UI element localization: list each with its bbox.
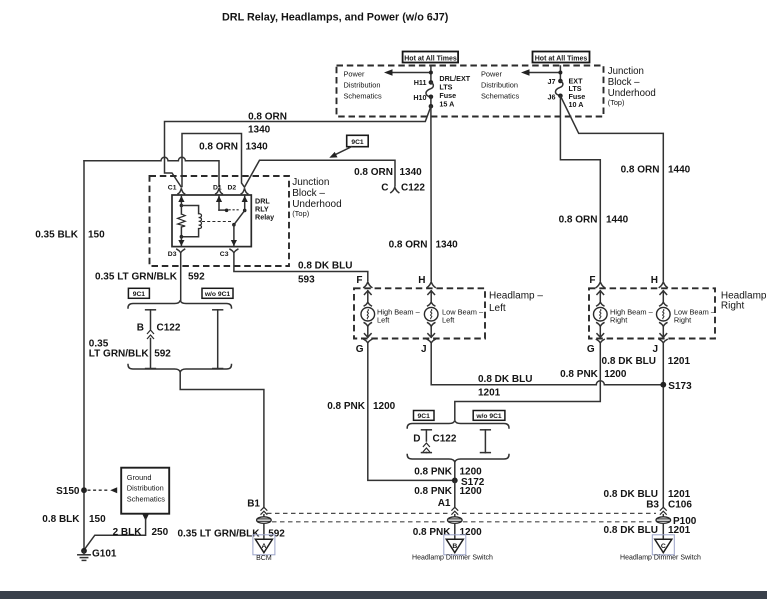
relay coil branch wiring [181,205,198,237]
wire fuse H10 down with branch node [430,97,432,107]
connector G (left) [364,339,372,342]
wire from hot-at-all-times down to fuse J7 [559,66,561,81]
svg-text:1201: 1201 [668,489,691,500]
svg-text:J6: J6 [548,93,556,102]
svg-text:1200: 1200 [460,486,483,497]
svg-text:J: J [421,344,427,355]
svg-text:0.8 ORN: 0.8 ORN [559,214,598,225]
svg-text:Right: Right [610,316,627,325]
svg-text:Ground: Ground [127,473,152,482]
node J6 [558,94,563,99]
connector D C122 line (with 9C1) [422,430,432,453]
connector B1 chevrons [261,507,268,515]
svg-text:J7: J7 [548,77,556,86]
junction block underhood (top) dashed box [337,66,604,117]
splice S150 [81,487,87,493]
svg-text:H: H [651,275,658,286]
wire 1340 C1 to D2 jumper [182,134,244,188]
svg-text:C106: C106 [668,499,692,510]
svg-text:Power: Power [344,70,365,79]
svg-text:1201: 1201 [478,388,501,399]
svg-text:Left: Left [442,316,454,325]
label w/o 9C1 (D C122 option) [473,411,505,421]
wire BLK 150 horizontal to relay D1 (hops over C1 wires) [84,157,219,186]
svg-text:DRL Relay, Headlamps, and Powe: DRL Relay, Headlamps, and Power (w/o 6J7… [222,12,449,24]
svg-text:2 BLK: 2 BLK [113,527,143,538]
power distribution schematics text left [344,70,383,101]
svg-text:H: H [418,275,425,286]
bracket top (D C122 group) [407,420,509,428]
svg-text:0.8 PNK: 0.8 PNK [327,401,366,412]
svg-text:Block –: Block – [608,77,640,88]
svg-text:1340: 1340 [436,240,459,251]
svg-text:15 A: 15 A [439,99,454,108]
svg-text:C: C [381,182,388,193]
svg-text:250: 250 [152,527,169,538]
wire 250 BLK from schematics box to G101 [84,515,148,550]
connector F (right) [596,282,604,288]
fuse DRL/EXT LTS 15A element [426,82,433,96]
svg-text:F: F [589,275,595,286]
svg-text:B: B [452,543,457,550]
power distribution schematics text right [481,70,520,101]
svg-text:0.8 ORN: 0.8 ORN [248,111,287,122]
splice S173 [660,382,666,388]
bracket bottom (B C122 group) [128,365,232,373]
svg-text:J: J [652,344,658,355]
svg-text:LT GRN/BLK: LT GRN/BLK [89,348,150,359]
connector A1 chevrons [451,507,458,515]
connector G (right) [596,339,604,342]
svg-text:G: G [356,344,364,355]
headlamp right dashed box [589,288,715,338]
svg-text:0.8 ORN: 0.8 ORN [199,142,238,153]
Hot at All Times label right [533,52,590,63]
DRL RLY Relay label [255,197,274,222]
DRL relay box [172,195,251,247]
wire 592 to BCM B1 [180,372,264,506]
svg-text:10 A: 10 A [569,100,584,109]
bracket top (B C122 group) [128,300,232,308]
arrow to power distribution schematics right [521,69,560,75]
svg-text:Headlamp Dimmer Switch: Headlamp Dimmer Switch [412,554,493,561]
arrow to power distribution schematics left [384,69,431,75]
svg-text:Power: Power [481,70,502,79]
fuse DRL/EXT LTS label [439,74,470,109]
svg-text:B3: B3 [646,499,659,510]
relay pin C1 wire with arrow into box [178,195,184,207]
bracket bottom (D C122 group) [407,455,509,463]
svg-text:(Top): (Top) [608,98,625,107]
low beam right bulb [657,291,671,338]
ground distribution schematics box [121,468,169,514]
svg-text:0.8 PNK: 0.8 PNK [560,369,599,380]
svg-text:0.8 ORN: 0.8 ORN [621,164,660,175]
wire 1201 DK BLU right J through S173 down to C106 B3 [662,343,664,507]
grommet at B1 [257,515,272,540]
svg-text:Schematics: Schematics [344,92,383,101]
svg-text:Block –: Block – [292,188,325,199]
label 9C1 reference with arrow [329,135,368,158]
svg-text:w/o 9C1: w/o 9C1 [204,291,231,298]
svg-text:F: F [356,275,362,286]
grommet at A1 [448,515,463,540]
svg-text:Distribution: Distribution [481,81,518,90]
wire 1200 PNK from S172 to dimmer switch A1 [454,480,456,506]
svg-text:Junction: Junction [292,177,329,188]
svg-text:0.8 ORN: 0.8 ORN [389,240,428,251]
svg-text:C3: C3 [220,251,229,258]
wire 1201 DK BLU from left J to splice S173 (hops over right G wire) [431,343,663,385]
svg-text:Headlamp –: Headlamp – [489,290,543,301]
relay pin D2 wire with arrow into box [242,195,248,212]
svg-text:592: 592 [188,272,205,283]
connector direct line (w/o 9C1, D C122) [481,430,491,453]
svg-text:Schematics: Schematics [127,494,166,503]
svg-text:Junction: Junction [608,66,644,77]
wire 1340 vertical from fuse H10 down to headlamp left H [430,106,432,280]
svg-text:150: 150 [89,514,106,525]
svg-text:9C1: 9C1 [351,139,364,146]
headlamp left dashed box [354,288,485,338]
wire 1340 branch diagonal to left horizontal [165,106,431,187]
svg-text:S150: S150 [56,486,80,497]
svg-text:Schematics: Schematics [481,92,520,101]
svg-text:Headlamp Dimmer Switch: Headlamp Dimmer Switch [620,554,701,561]
resistor (relay) [178,214,186,227]
svg-text:H10: H10 [413,93,426,102]
svg-text:0.8 BLK: 0.8 BLK [42,514,80,525]
svg-text:1440: 1440 [606,214,629,225]
svg-text:0.8 DK BLU: 0.8 DK BLU [604,489,658,500]
svg-text:Hot at All Times: Hot at All Times [404,55,457,62]
Hot at All Times label left [403,52,459,63]
svg-text:C122: C122 [433,434,457,445]
fuse EXT LTS label [569,76,586,108]
connector D3 [177,249,185,252]
coil (relay) [199,214,202,229]
svg-text:0.8 DK BLU: 0.8 DK BLU [602,356,656,367]
label 9C1 (B C122 option) [128,288,149,298]
svg-text:S173: S173 [668,381,692,392]
fuse EXT LTS 10A element [555,81,562,95]
svg-text:0.8 DK BLU: 0.8 DK BLU [298,261,352,272]
svg-text:0.35 LT GRN/BLK: 0.35 LT GRN/BLK [177,529,260,540]
svg-text:Hot at All Times: Hot at All Times [535,55,588,62]
relay switch contact dashed (alternate position) [229,209,241,211]
svg-text:0.8 DK BLU: 0.8 DK BLU [478,374,532,385]
label 9C1 (D C122 option) [414,411,435,421]
svg-text:Relay: Relay [255,213,274,222]
wire 1200 PNK from right G to D C122 group [455,343,601,420]
svg-text:Left: Left [489,303,506,314]
headlamp dimmer switch triangle C [652,535,674,555]
relay mechanical linkage dashed [202,221,231,223]
svg-text:593: 593 [298,275,315,286]
connector J (left) [427,339,435,342]
pass-through dashed line lower [272,521,447,523]
ground G101 [78,548,90,561]
svg-text:1201: 1201 [668,356,691,367]
connector F (left) [364,282,372,288]
label w/o 9C1 (B C122 option) [202,288,233,298]
svg-text:w/o 9C1: w/o 9C1 [475,413,502,420]
svg-text:1340: 1340 [400,167,423,178]
svg-text:0.8 ORN: 0.8 ORN [354,167,393,178]
svg-text:(Top): (Top) [292,209,310,218]
svg-text:592: 592 [268,529,285,540]
svg-text:0.8 DK BLU: 0.8 DK BLU [604,525,658,536]
connector C3 [230,249,238,252]
connector D1 [216,188,223,194]
headlamp dimmer switch triangle B [444,535,466,555]
relay switch blade [234,210,245,224]
wire 592 from D3 down [180,253,182,301]
svg-text:Right: Right [674,316,691,325]
wire 1440 from fuse J6 diagonal to headlamp right H [560,96,663,281]
connector C C122 [391,187,399,192]
wire BLK 150 far left vertical [83,161,85,551]
svg-text:C: C [661,543,666,550]
node H10 [429,95,434,100]
svg-text:D3: D3 [168,251,177,258]
svg-text:C122: C122 [401,182,425,193]
wire 1440 from fuse J6 down to headlamp right F [560,96,600,281]
connector H (right) [659,282,667,288]
connector D2 [241,188,248,194]
svg-text:0.8 PNK: 0.8 PNK [414,486,453,497]
svg-text:1440: 1440 [668,164,691,175]
svg-text:1340: 1340 [246,142,269,153]
svg-text:G101: G101 [92,548,117,559]
svg-text:0.8 PNK: 0.8 PNK [414,467,453,478]
wire from hot-at-all-times down to fuse H11 [430,66,432,82]
headlamp right label [721,291,767,312]
svg-text:D2: D2 [228,185,237,192]
relay wire to C3 with arrow [231,225,237,247]
relay wire to D3 with arrow [178,237,184,247]
headlamp left label [489,290,543,314]
svg-text:Left: Left [377,316,389,325]
svg-text:C122: C122 [157,322,181,333]
svg-text:150: 150 [88,229,105,240]
wire 1200 PNK from D C122 to S172 [454,462,456,480]
svg-text:0.35 BLK: 0.35 BLK [35,229,79,240]
bottom bar [0,591,767,599]
svg-text:A1: A1 [438,498,451,509]
svg-text:Distribution: Distribution [344,81,381,90]
svg-text:0.35 LT GRN/BLK: 0.35 LT GRN/BLK [95,272,178,283]
wire 1340 from D2 to C122 stub [245,160,395,187]
BCM triangle A [253,535,275,555]
splice S172 [452,478,458,484]
svg-text:H11: H11 [414,78,427,87]
connector direct line (w/o 9C1) [213,310,223,369]
svg-text:1200: 1200 [604,369,627,380]
node H11 [429,80,434,85]
svg-text:G: G [587,344,595,355]
connector H (left) [427,282,435,288]
junction block underhood dashed box (relay) [150,176,290,266]
pass-through dashed line upper [267,512,448,514]
svg-text:C1: C1 [168,185,177,192]
svg-text:1200: 1200 [460,527,483,538]
junction block underhood label (relay) [292,177,341,218]
svg-text:BCM: BCM [256,555,272,562]
svg-text:0.8 PNK: 0.8 PNK [413,527,452,538]
svg-text:A: A [261,543,266,550]
dashed arrow to ground distribution schematics [88,487,118,493]
svg-text:9C1: 9C1 [133,291,146,298]
svg-text:1201: 1201 [668,525,691,536]
svg-text:Right: Right [721,301,745,312]
connector J (right) [659,339,667,342]
low beam left bulb [424,291,438,338]
junction block underhood label (top right) [608,66,656,107]
high beam right bulb [594,291,608,338]
connector B C122 line (with 9C1) [146,310,156,369]
svg-text:Distribution: Distribution [127,484,164,493]
relay pin D1 wire with arrow into box [216,195,229,212]
grommet P100 [656,515,671,540]
svg-text:1340: 1340 [248,125,271,136]
svg-text:D: D [413,434,420,445]
svg-text:592: 592 [154,348,171,359]
svg-text:B: B [137,322,144,333]
high beam left bulb [361,291,375,338]
wire 593 DK BLU from C3 to headlamp left F [234,253,368,281]
connector C1 [178,188,185,194]
svg-text:9C1: 9C1 [418,413,431,420]
wire 1200 PNK from left G to splice S172 [368,343,452,481]
relay coil bottom junction [180,235,184,239]
connector B3 chevrons [660,507,667,515]
svg-text:1200: 1200 [373,401,396,412]
svg-text:B1: B1 [247,499,260,510]
svg-text:D1: D1 [213,185,222,192]
node J7 [558,79,563,84]
